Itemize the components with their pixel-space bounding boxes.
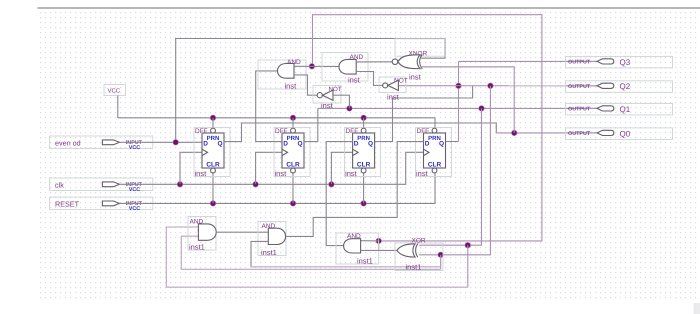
flip-flop inst DFF2 PRN bubble [291,128,296,133]
wire lower rail to AND-B1 second input [181,236,440,269]
flip-flop inst DFF2 body [282,133,304,168]
input pin even od bounding box [50,136,153,149]
xor-gate XOR-B second input arc [416,244,418,258]
wire AND1 output to DFF2 D [256,71,282,142]
wire DFF2 Q to Q1 row [304,108,318,141]
wire Q1 net down to bottom rail [467,245,469,287]
not-gate NOT1 body mirrored [323,90,334,100]
wire AND-B2 second input riser [251,241,268,266]
svg-text:D: D [283,141,288,148]
wire output column riser [458,61,460,141]
svg-text:inst: inst [195,169,208,178]
node junction AND2 output [309,64,315,70]
svg-text:CLR: CLR [206,162,220,169]
wire stub feedback down to XOR output net [378,241,380,251]
node junction XOR top input [465,242,471,248]
node junction PRN DFF1 [210,115,216,121]
wire Q1 row [318,107,597,109]
wire VCC preset rail [118,117,435,119]
svg-text:OUTPUT: OUTPUT [568,84,591,90]
node junction clk DFF2 [253,182,259,188]
wire even_odd to DFF1 D [119,141,202,143]
svg-text:inst1: inst1 [357,257,373,266]
wire PRN riser DFF1 [212,118,214,128]
svg-text:CLR: CLR [428,162,442,169]
svg-text:inst: inst [321,101,334,110]
xnor-gate U-XNOR output bubble [392,59,398,65]
wire NOT1 output to AND1 input [294,75,317,95]
svg-text:Q3: Q3 [620,58,631,67]
svg-text:inst1: inst1 [406,263,422,272]
wire Q1 tap down to XOR input [419,108,481,245]
wire Q2 tap down to XOR bottom input [419,86,491,255]
and-gate AND-B2 body [268,228,285,244]
wire Q2 net lower rail to AND-B2 input [251,266,441,268]
and-gate AND-B1 bounding box [188,217,216,251]
svg-text:inst: inst [285,82,298,91]
output pin Q0 wire [566,132,597,134]
output pin Q1 bounding box [566,103,673,115]
output pin Q0 symbol [597,130,614,135]
and-gate AND2 bounding box [322,53,368,82]
svg-text:D: D [425,141,430,148]
wire VCC down [117,96,119,118]
node junction reset DFF2 [290,201,296,207]
output pin Q1 symbol [597,106,614,111]
wire XOR bottom input down [440,255,442,269]
node junction reset DFF1 [210,201,216,207]
flip-flop inst DFF1 body [202,133,224,168]
node junction PRN DFF3 [361,115,367,121]
and-gate AND1 bounding box [258,60,306,89]
wire Q3 row [459,60,598,62]
svg-text:Q0: Q0 [620,129,631,138]
and-gate AND-B3 bounding box [336,233,379,264]
output pin Q2 wire [566,85,597,87]
and-gate AND-B3 body mirrored [344,239,361,253]
wire XNOR bottom input Q0 net [421,67,515,133]
svg-text:VCC: VCC [108,87,121,94]
svg-text:inst: inst [275,169,288,178]
svg-text:Q1: Q1 [620,105,631,114]
xor-gate XOR-B bounding box [395,243,443,271]
svg-text:inst: inst [348,76,361,85]
flip-flop inst DFF1 bounding box [194,128,230,177]
wire clk branch DFF1 [180,152,203,184]
output pin Q2 bounding box [566,81,673,93]
output pin Q0 bounding box [566,128,673,139]
flip-flop inst DFF2 CLRN bubble [291,168,296,173]
svg-text:Q: Q [439,141,444,148]
flip-flop inst DFF2 clock triangle [282,149,288,155]
wire XNOR output to AND2 input [356,61,392,63]
svg-text:OUTPUT: OUTPUT [568,60,591,66]
xnor-gate U-XNOR body mirrored [398,55,420,69]
flip-flop inst DFF3 clock triangle [353,149,359,155]
not-gate NOT2 bounding box [379,77,406,93]
wire reset branch DFF3 [363,173,365,204]
flip-flop inst DFF3 bounding box [345,128,381,177]
svg-text:RESET: RESET [55,200,80,209]
wire Q0 row to output pin [496,132,597,134]
wire feedback top rail from AND2 output [313,15,542,241]
flip-flop inst DFF4 PRN bubble [432,128,437,133]
output pin Q3 symbol [597,59,614,64]
flip-flop inst DFF4 bounding box [416,128,452,177]
svg-text:Q: Q [297,141,302,148]
flip-flop inst DFF4 body [424,133,446,168]
wire AND2 output to AND1 input [294,65,339,67]
wire PRN riser DFF2 [292,118,294,128]
flip-flop inst DFF3 body [353,133,375,168]
node junction bottom feedback at AND-B3 [376,238,382,244]
svg-text:Q2: Q2 [620,82,631,91]
node junction Q2 down tap [488,83,494,89]
svg-text:inst: inst [345,169,358,178]
input pin clk bounding box [50,178,153,191]
svg-text:even od: even od [55,138,81,147]
output pin Q3 wire [566,60,597,62]
wire reset rail [119,173,435,204]
wire DFF4 Q to output column [446,141,459,143]
input pin even od symbol [102,140,119,145]
wire DFF1 Q output to Q0 net [224,123,496,142]
wire AND-B2 output staircase to DFF4 D [286,142,424,237]
wire XOR output to AND-B3 input [361,249,397,251]
wire stub feedback to AND-B3 input [361,240,379,242]
flip-flop inst DFF3 CLRN bubble [361,168,366,173]
and-gate AND1 body mirrored [278,64,295,79]
svg-text:CLR: CLR [286,162,300,169]
flip-flop inst DFF2 bounding box [274,128,310,177]
not-gate NOT1 output bubble [317,93,322,98]
wire even_odd riser to top rail [176,39,445,142]
not-gate NOT2 body mirrored [388,80,399,90]
and-gate AND2 body mirrored [339,59,356,74]
svg-text:VCC: VCC [129,206,140,212]
wire reset branch DFF1 [212,173,214,204]
scrollbar fragment bottom right [694,303,700,314]
flip-flop inst DFF1 PRN bubble [211,128,216,133]
svg-text:inst: inst [416,169,429,178]
node junction output column Q2 row [456,83,462,89]
node junction clk DFF3 [329,182,335,188]
flip-flop inst DFF3 PRN bubble [361,128,366,133]
wire clk branch DFF2 [256,152,282,184]
wire preset rail corner to DFF4 PRN [434,118,436,128]
wire NOT2 output to AND2 input [356,72,383,86]
power VCC symbol [104,85,126,96]
svg-text:inst: inst [409,73,422,82]
wire Q2 row [398,85,597,87]
svg-text:Q: Q [368,141,373,148]
not-gate NOT1 bounding box [313,86,341,104]
svg-text:VCC: VCC [129,187,140,193]
flip-flop inst DFF1 CLRN bubble [211,168,216,173]
node junction even_odd riser [173,140,179,146]
wire bottom rail to AND-B1 first input [166,227,468,287]
and-gate AND-B1 body [198,224,216,240]
wire DFF3 Q riser [375,86,473,142]
wire AND-B1 output to AND-B2 input [216,231,268,233]
wire clk rail [119,152,423,184]
node junction reset DFF3 [361,201,367,207]
svg-text:CLR: CLR [357,162,371,169]
input pin RESET bounding box [50,197,153,210]
node junction clk DFF1 [177,182,183,188]
sheet top border [38,7,700,9]
input pin RESET symbol [102,201,119,206]
xnor-gate U-XNOR second input arc [420,55,423,69]
output pin Q1 wire [566,107,597,109]
output pin Q2 symbol [597,83,614,88]
node junction PRN DFF2 [290,115,296,121]
flip-flop inst DFF4 CLRN bubble [432,168,437,173]
wire PRN riser DFF3 [363,118,365,128]
input pin clk symbol [102,182,119,187]
svg-text:inst1: inst1 [261,248,277,257]
svg-text:inst: inst [387,93,400,102]
svg-text:OUTPUT: OUTPUT [568,131,591,137]
svg-text:D: D [354,141,359,148]
flip-flop inst DFF4 clock triangle [424,149,430,155]
svg-text:Q: Q [217,141,222,148]
node junction Q1 down tap [479,106,485,112]
node junction Q0 XNOR tap [511,130,517,136]
xor-gate XOR-B body mirrored [397,244,415,257]
wire AND-B3 output to DFF3 D [326,142,353,246]
svg-text:inst1: inst1 [189,243,205,252]
wire clk branch DFF3 [331,152,352,184]
wire NOT1 input from Q1 net [333,95,349,108]
not-gate NOT2 output bubble [383,83,388,88]
svg-text:OUTPUT: OUTPUT [568,107,591,113]
node junction Q1 NOT1 tap [347,106,353,112]
xnor-gate U-XNOR bounding box [395,39,445,56]
flip-flop inst DFF1 clock triangle [202,149,208,155]
node junction XOR bottom input [438,252,444,257]
svg-text:VCC: VCC [129,145,140,151]
svg-text:clk: clk [55,180,64,189]
wire reset branch DFF2 [292,173,294,204]
svg-text:D: D [203,141,208,148]
output pin Q3 bounding box [566,56,673,68]
and-gate AND-B2 bounding box [258,222,286,256]
